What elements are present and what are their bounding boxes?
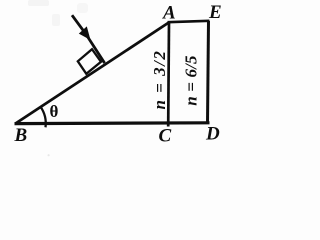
arrowhead bbox=[79, 26, 91, 40]
svg-text:D: D bbox=[205, 123, 220, 144]
base line B-C-D bbox=[15, 121, 210, 125]
svg-text:A: A bbox=[162, 3, 176, 24]
incline line B-A (hypotenuse) bbox=[16, 23, 169, 124]
svg-text:θ: θ bbox=[50, 102, 59, 121]
angle arc at B bbox=[41, 107, 46, 127]
faint scan splotch above arrow bbox=[77, 3, 88, 13]
svg-text:n = 6/5: n = 6/5 bbox=[181, 55, 200, 106]
top line A-E bbox=[168, 21, 210, 22]
vertical line A-C bbox=[167, 22, 171, 127]
faint scan square bbox=[52, 14, 60, 26]
svg-text:B: B bbox=[14, 125, 28, 146]
right-angle square block on incline bbox=[78, 49, 101, 74]
svg-text:E: E bbox=[208, 2, 222, 23]
incident ray arrow shaft bbox=[72, 15, 105, 63]
faint dot bbox=[48, 154, 50, 156]
svg-text:n = 3/2: n = 3/2 bbox=[150, 50, 169, 110]
svg-text:C: C bbox=[159, 126, 172, 147]
faint scan smudge top-left bbox=[28, 0, 49, 6]
vertical line E-D bbox=[208, 21, 209, 124]
